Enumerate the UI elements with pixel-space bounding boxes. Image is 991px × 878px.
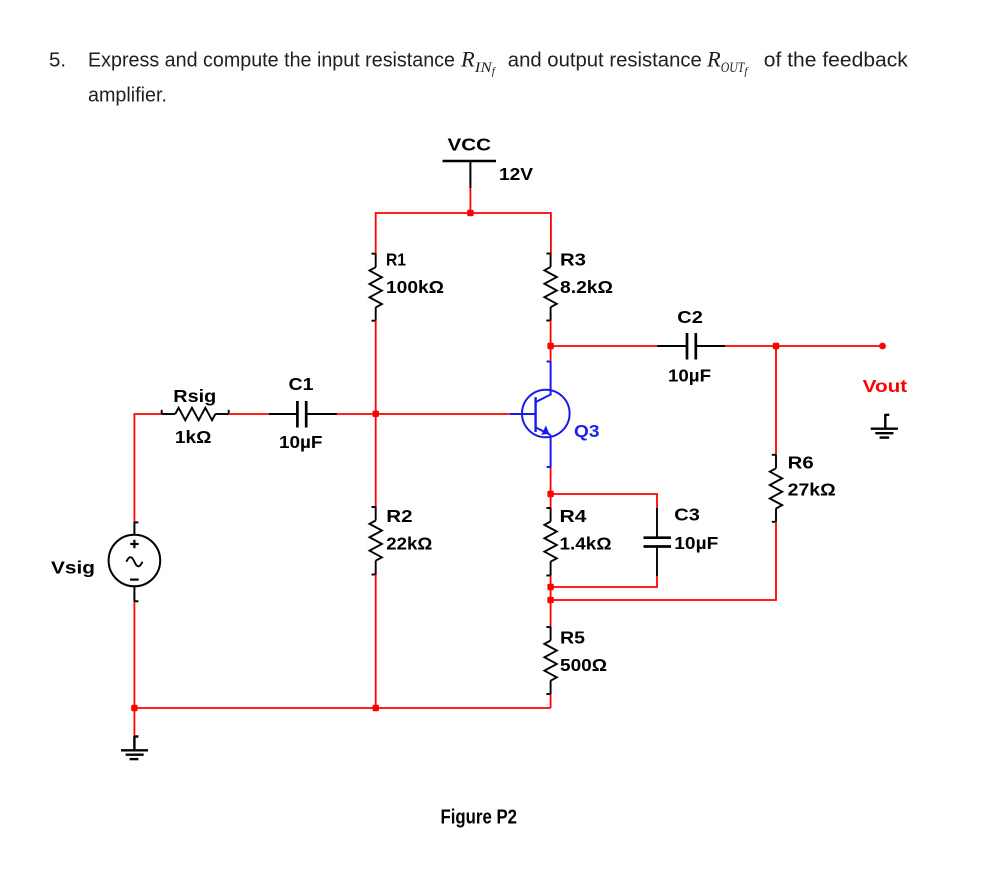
wire R6 top drop — [775, 346, 777, 455]
capacitor C3 — [644, 508, 672, 576]
svg-text:R5: R5 — [560, 628, 585, 648]
svg-text:10µF: 10µF — [674, 533, 718, 553]
wire C2 to Vout — [725, 345, 883, 347]
wire collector red stub — [550, 346, 552, 361]
svg-text:R1: R1 — [386, 250, 406, 270]
transistor Q3 — [510, 361, 570, 468]
svg-text:ROUTf: ROUTf — [706, 47, 749, 78]
junction collector node — [547, 343, 553, 349]
junction Vout branch — [773, 343, 779, 349]
resistor R6 — [770, 455, 782, 522]
wire emitter to emitter node — [550, 468, 552, 495]
svg-text:Figure P2: Figure P2 — [441, 807, 518, 829]
svg-text:1.4kΩ: 1.4kΩ — [560, 534, 612, 554]
resistor R3 — [544, 254, 556, 321]
wire bottom rail — [134, 707, 550, 709]
wire top rail — [376, 213, 551, 254]
svg-text:100kΩ: 100kΩ — [386, 277, 444, 297]
svg-text:RINf: RINf — [460, 47, 497, 78]
wire R5 bottom — [550, 694, 552, 708]
resistor R1 — [370, 254, 382, 321]
junction VCC rail — [467, 210, 473, 216]
svg-text:Vout: Vout — [863, 376, 908, 396]
wire C1 to base node — [337, 413, 376, 415]
resistor R4 — [544, 508, 556, 576]
wire R6 bottom to feedback node — [551, 522, 776, 600]
ground near Vout — [871, 414, 898, 438]
svg-text:amplifier.: amplifier. — [88, 84, 167, 107]
title line 1 — [49, 47, 909, 78]
svg-text:of the feedback: of the feedback — [764, 49, 909, 72]
svg-text:C2: C2 — [677, 307, 703, 327]
svg-text:C3: C3 — [674, 505, 700, 525]
wire R3 bottom to collector node — [550, 321, 552, 347]
wire VCC stub — [469, 188, 471, 213]
wire R1 bottom to base node — [375, 321, 377, 414]
svg-text:Express and compute the input: Express and compute the input resistance — [88, 49, 455, 72]
wire source loop left — [134, 414, 161, 522]
junction emitter node — [547, 491, 553, 497]
junction Vsig ground node — [131, 705, 137, 711]
junction bottom rail R2 node — [373, 705, 379, 711]
svg-text:R2: R2 — [386, 506, 413, 526]
svg-text:Rsig: Rsig — [173, 386, 216, 406]
capacitor C2 — [657, 333, 725, 360]
svg-text:22kΩ: 22kΩ — [386, 534, 432, 554]
svg-text:R3: R3 — [560, 250, 586, 270]
wire collector node to C2 — [551, 345, 658, 347]
svg-text:R4: R4 — [560, 506, 587, 526]
junction base node — [373, 411, 379, 417]
resistor R5 — [544, 627, 556, 694]
svg-text:C1: C1 — [289, 374, 314, 394]
junction feedback node — [547, 597, 553, 603]
svg-text:500Ω: 500Ω — [560, 655, 607, 675]
wire Vsig bottom — [133, 602, 135, 708]
svg-text:10µF: 10µF — [668, 366, 711, 386]
wire Rsig to C1 — [229, 413, 269, 415]
svg-text:12V: 12V — [499, 164, 533, 184]
junction R4 bottom node — [547, 584, 553, 590]
svg-text:Q3: Q3 — [574, 421, 600, 441]
wire C3 bottom to R4 bottom node — [551, 576, 657, 587]
ground under Vsig — [121, 736, 148, 759]
svg-text:Vsig: Vsig — [51, 558, 95, 578]
source Vsig — [109, 522, 161, 602]
wire R4 bottom — [550, 576, 552, 601]
svg-text:1kΩ: 1kΩ — [175, 427, 212, 447]
resistor R2 — [370, 507, 382, 575]
wire base node to R2 — [375, 414, 377, 507]
power symbol VCC — [443, 161, 497, 188]
svg-text:R6: R6 — [788, 453, 814, 473]
svg-text:10µF: 10µF — [279, 432, 323, 452]
node Vout terminal — [879, 343, 886, 350]
wire base node to Q3 — [376, 413, 510, 415]
wire emitter node to C3 top — [551, 494, 657, 508]
svg-text:and output resistance: and output resistance — [508, 49, 702, 72]
svg-text:27kΩ: 27kΩ — [788, 480, 836, 500]
wire R2 bottom — [375, 575, 377, 709]
wire feedback node to R5 — [550, 600, 552, 627]
wire ground stub — [133, 708, 135, 736]
svg-text:5.: 5. — [49, 49, 66, 72]
capacitor C1 — [269, 401, 337, 428]
svg-text:8.2kΩ: 8.2kΩ — [560, 277, 613, 297]
wire emitter node to R4 — [550, 494, 552, 508]
svg-text:VCC: VCC — [448, 135, 492, 155]
resistor Rsig — [162, 408, 229, 420]
